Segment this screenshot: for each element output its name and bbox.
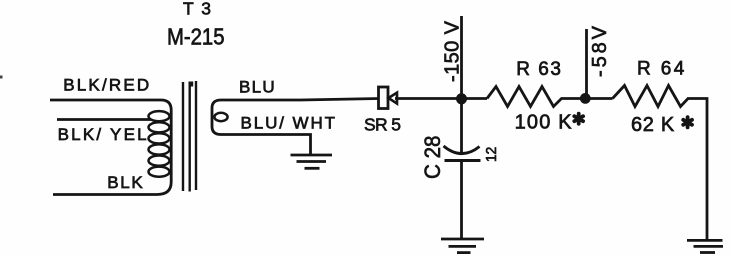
svg-text:100 K: 100 K bbox=[515, 112, 573, 134]
svg-text:BLU/ WHT: BLU/ WHT bbox=[241, 114, 336, 133]
transformer core lines bbox=[183, 81, 196, 192]
asterisk (R64 note) bbox=[683, 117, 692, 127]
wire SR5 to R63 bbox=[395, 97, 487, 100]
svg-text:M-215: M-215 bbox=[167, 24, 225, 50]
ground (right, below R64) bbox=[687, 240, 723, 252]
primary winding loops of T3 bbox=[149, 111, 170, 177]
node -58V vertical wire bbox=[585, 29, 588, 99]
junction dot (-150V node) bbox=[456, 93, 467, 104]
asterisk (R63 note) bbox=[574, 114, 583, 124]
junction dot (-58V node) bbox=[580, 93, 591, 104]
svg-text:-150 V: -150 V bbox=[442, 20, 464, 82]
wire BLK/YEL tap lead bbox=[57, 118, 151, 121]
rectifier SR5 arrow bbox=[389, 93, 398, 104]
stray mark left edge bbox=[0, 76, 3, 79]
secondary crossover loop bbox=[214, 113, 227, 121]
capacitor C28 curved plate bbox=[444, 146, 480, 154]
svg-text:BLU: BLU bbox=[239, 77, 275, 96]
ground (secondary) bbox=[291, 155, 333, 168]
svg-text:T 3: T 3 bbox=[183, 0, 211, 19]
ground (below C28) bbox=[441, 239, 484, 253]
wire C28 to ground bbox=[460, 161, 463, 239]
svg-text:R 63: R 63 bbox=[516, 59, 561, 80]
svg-text:12: 12 bbox=[483, 147, 500, 162]
resistor R63 bbox=[487, 87, 613, 107]
svg-text:BLK: BLK bbox=[107, 173, 143, 192]
svg-text:C 28: C 28 bbox=[420, 136, 445, 180]
secondary winding of T3 (flat loops) + wire BLU to SR5 bbox=[212, 99, 380, 155]
svg-text:SR 5: SR 5 bbox=[364, 115, 401, 135]
svg-text:62 K: 62 K bbox=[631, 114, 675, 136]
svg-text:BLK/RED: BLK/RED bbox=[63, 76, 149, 95]
node -150V vertical wire bbox=[460, 16, 463, 155]
capacitor C28 flat plate bbox=[445, 159, 481, 162]
resistor R64 bbox=[613, 86, 708, 240]
rectifier SR5 plate bbox=[379, 87, 389, 109]
wire BLK/RED lead + primary right edge + wire BLK lead bbox=[50, 100, 171, 195]
svg-text:R 64: R 64 bbox=[637, 59, 685, 80]
